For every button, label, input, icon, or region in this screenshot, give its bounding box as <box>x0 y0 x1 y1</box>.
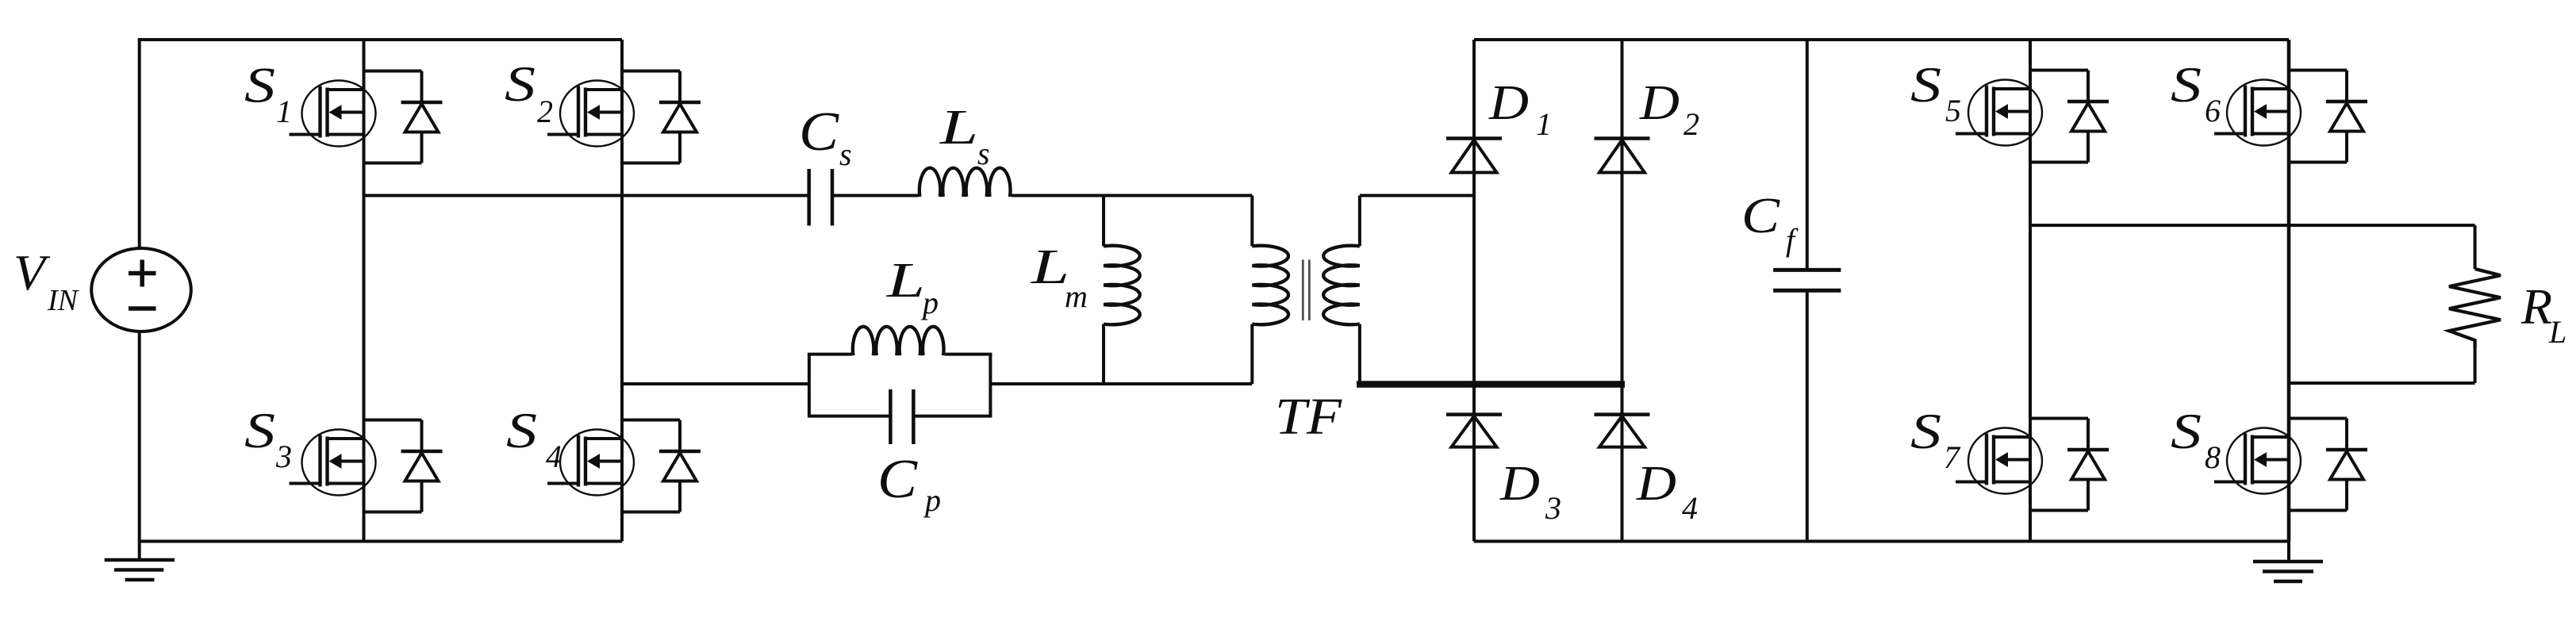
svg-text:C: C <box>1741 187 1780 243</box>
label S1 <box>244 57 292 130</box>
label Cp <box>877 449 941 518</box>
svg-text:5: 5 <box>1945 93 1961 128</box>
label D4 <box>1636 457 1698 526</box>
svg-text:S: S <box>505 56 536 112</box>
svg-text:3: 3 <box>1545 490 1561 526</box>
wire RL upper <box>2474 225 2477 269</box>
svg-text:s: s <box>977 136 990 171</box>
wire RL lower <box>2474 348 2477 383</box>
svg-text:IN: IN <box>47 284 80 317</box>
node A mid rail <box>364 194 809 197</box>
svg-text:1: 1 <box>276 94 292 129</box>
inductor Ls <box>919 168 1011 197</box>
svg-text:2: 2 <box>537 94 553 129</box>
body diode of S3 <box>364 420 443 512</box>
label S4 <box>506 402 562 474</box>
svg-text:S: S <box>2171 56 2202 113</box>
transformer core <box>1303 260 1309 321</box>
inductor Lp <box>853 327 944 355</box>
label D1 <box>1488 76 1552 142</box>
label D2 <box>1639 76 1699 142</box>
label S3 <box>244 402 292 474</box>
label S2 <box>505 56 553 129</box>
resistor R_L <box>2449 269 2501 348</box>
svg-text:S: S <box>506 402 537 458</box>
label S5 <box>1910 56 1961 128</box>
wire TF secondary to D4 (bold) <box>1357 381 1625 388</box>
label S7 <box>1910 403 1961 475</box>
wire output top <box>2030 224 2475 227</box>
body diode of S8 <box>2289 419 2367 511</box>
label D3 <box>1499 457 1561 526</box>
svg-text:TF: TF <box>1275 388 1342 446</box>
svg-text:4: 4 <box>546 439 562 474</box>
svg-text:S: S <box>1910 56 1941 113</box>
svg-text:S: S <box>1910 403 1941 459</box>
svg-text:p: p <box>920 285 939 320</box>
label Lm <box>1031 240 1088 314</box>
transistor S3 <box>290 430 376 496</box>
wire TF secondary top <box>1360 196 1474 247</box>
wire S5-S7 leg <box>2029 40 2032 542</box>
svg-text:6: 6 <box>2205 93 2221 128</box>
wire Vin leg upper <box>138 38 141 249</box>
transistor S2 <box>547 81 634 147</box>
svg-text:s: s <box>839 136 852 172</box>
body diode of S6 <box>2289 71 2367 163</box>
svg-text:L: L <box>1031 240 1069 294</box>
wire top-left rail <box>140 38 622 41</box>
svg-text:S: S <box>2171 403 2202 459</box>
svg-text:R: R <box>2520 278 2552 335</box>
wire TF secondary bottom <box>1358 324 1361 384</box>
svg-text:2: 2 <box>1683 106 1699 142</box>
diode D1 <box>1446 139 1502 173</box>
svg-text:D: D <box>1639 76 1680 130</box>
label S6 <box>2171 56 2221 128</box>
wire Cf upper <box>1806 40 1809 270</box>
svg-text:p: p <box>923 482 941 518</box>
label S8 <box>2171 403 2221 475</box>
transformer TF primary winding <box>1252 246 1288 324</box>
transistor S7 <box>1956 428 2042 494</box>
label V_IN <box>13 244 80 317</box>
svg-text:1: 1 <box>1536 106 1552 142</box>
wire D1-D3 leg <box>1472 40 1476 542</box>
svg-text:3: 3 <box>275 439 292 474</box>
transformer TF secondary winding <box>1323 246 1360 324</box>
transistor S5 <box>1956 80 2042 146</box>
wire TF primary top <box>1250 196 1253 247</box>
svg-text:C: C <box>799 102 839 163</box>
svg-text:L: L <box>886 254 925 308</box>
wire output bottom <box>2289 381 2475 385</box>
wire tank box frame <box>808 355 992 416</box>
body diode of S7 <box>2030 419 2109 511</box>
wire Lm lower <box>1102 324 1105 384</box>
wire D2-D4 leg <box>1621 40 1624 542</box>
wire bottom-left rail <box>140 540 622 543</box>
wire Cf lower <box>1806 290 1809 541</box>
capacitor Cp <box>890 389 913 444</box>
wire node B lower branch <box>622 382 809 385</box>
svg-text:4: 4 <box>1682 490 1698 526</box>
body diode of S5 <box>2030 71 2109 163</box>
capacitor Cs <box>809 169 832 226</box>
diode D2 <box>1595 139 1650 173</box>
svg-text:m: m <box>1065 278 1088 314</box>
label Lp <box>886 254 939 320</box>
label Cf <box>1741 187 1799 258</box>
wire tank to Lm <box>990 382 1252 385</box>
wire TF primary bottom <box>1250 324 1253 384</box>
wire S6-S8 leg <box>2287 40 2291 542</box>
svg-text:L: L <box>939 101 978 155</box>
svg-text:C: C <box>877 449 918 510</box>
body diode of S4 <box>622 420 701 512</box>
wire Lm upper <box>1102 196 1105 247</box>
label Cs <box>799 102 852 172</box>
wire Vin leg lower <box>138 332 141 560</box>
wire Cs to Ls <box>832 194 918 197</box>
label R_L <box>2520 278 2566 350</box>
wire Ls to TF <box>1012 194 1252 197</box>
body diode of S1 <box>364 71 443 163</box>
wire top-right rail <box>1474 38 2289 41</box>
inductor Lm <box>1104 246 1140 324</box>
wire S2-S4 leg <box>620 40 624 542</box>
transistor S1 <box>290 81 376 147</box>
capacitor Cf <box>1773 270 1841 290</box>
voltage source V_IN <box>91 248 191 332</box>
transistor S4 <box>547 430 634 496</box>
svg-text:S: S <box>244 57 275 113</box>
svg-text:D: D <box>1499 457 1540 511</box>
wire S1-S3 leg <box>363 40 366 542</box>
body diode of S2 <box>622 71 701 163</box>
wire bottom-right rail <box>1474 540 2289 543</box>
transistor S6 <box>2214 80 2301 146</box>
diode D4 <box>1595 415 1650 447</box>
svg-text:S: S <box>244 402 275 458</box>
svg-text:8: 8 <box>2205 439 2221 475</box>
svg-text:D: D <box>1636 457 1676 511</box>
ground right <box>2253 542 2323 582</box>
svg-text:D: D <box>1488 76 1529 130</box>
diode D3 <box>1446 415 1502 447</box>
ground left <box>105 560 175 580</box>
label TF <box>1275 388 1342 446</box>
transistor S8 <box>2214 428 2301 494</box>
svg-text:7: 7 <box>1944 439 1961 475</box>
svg-text:L: L <box>2548 314 2566 350</box>
label Ls <box>939 101 990 171</box>
